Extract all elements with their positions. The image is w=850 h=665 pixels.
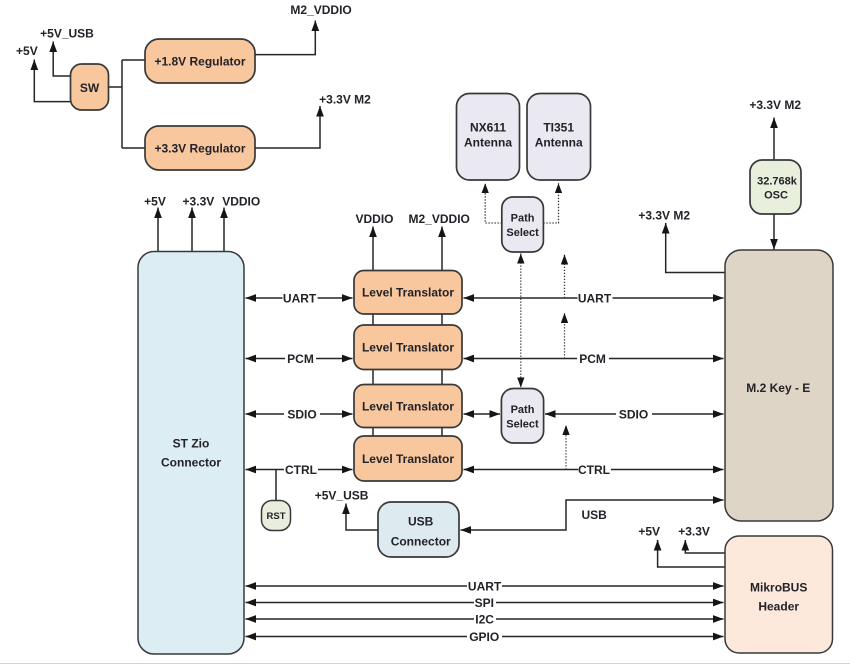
wire UART bus (ST Zio to MikroBUS) — [246, 585, 724, 587]
box Path Select (upper) — [502, 197, 544, 252]
wire VDDIO column arrow (above LT1) — [372, 227, 374, 271]
wire CTRL (LT4 to M.2) — [464, 469, 724, 471]
box NX611 Antenna — [457, 94, 520, 181]
wire GPIO bus (ST Zio to MikroBUS) — [246, 636, 724, 638]
wire ST Zio VDDIO arrow — [223, 208, 225, 252]
svg-text:Path: Path — [511, 213, 535, 225]
svg-text:M2_VDDIO: M2_VDDIO — [290, 3, 351, 17]
svg-text:Level Translator: Level Translator — [362, 341, 454, 355]
svg-text:+3.3V: +3.3V — [183, 195, 215, 209]
svg-text:CTRL: CTRL — [578, 463, 610, 477]
svg-text:+1.8V Regulator: +1.8V Regulator — [154, 55, 245, 69]
svg-text:Level Translator: Level Translator — [362, 286, 454, 300]
box SW — [71, 64, 109, 110]
svg-text:Select: Select — [506, 227, 539, 239]
svg-text:CTRL: CTRL — [285, 463, 317, 477]
svg-text:+5V: +5V — [144, 195, 166, 209]
wire +5V to MikroBUS — [658, 540, 725, 567]
box 32.768k OSC — [750, 160, 801, 214]
wire +3.3V regulator output to +3.3V M2 — [255, 106, 320, 148]
svg-text:+3.3V M2: +3.3V M2 — [319, 92, 371, 106]
box +3.3V Regulator — [145, 126, 255, 170]
svg-text:MikroBUS: MikroBUS — [750, 580, 807, 594]
svg-text:SDIO: SDIO — [287, 407, 316, 421]
wire LT3-LT4 right — [441, 428, 443, 437]
svg-text:Antenna: Antenna — [535, 136, 583, 150]
svg-text:PCM: PCM — [579, 352, 606, 366]
box Level Translator 4 — [354, 436, 462, 481]
dotted wire CTRL control arrow — [565, 425, 567, 470]
wire LT2-LT3 left — [372, 370, 374, 385]
svg-text:M.2 Key - E: M.2 Key - E — [746, 381, 810, 395]
svg-text:USB: USB — [408, 515, 434, 529]
svg-text:Connector: Connector — [161, 456, 221, 470]
wire OSC to +3.3V M2 — [773, 118, 775, 161]
svg-text:UART: UART — [468, 579, 502, 593]
wire +3.3V to MikroBUS — [685, 540, 725, 553]
box M.2 Key - E — [725, 250, 833, 521]
svg-text:Header: Header — [758, 599, 799, 613]
svg-text:SW: SW — [80, 81, 100, 95]
dotted wire PCM control arrow — [564, 313, 566, 359]
box Path Select (lower) — [501, 389, 543, 444]
wire LT3 to Path Select — [464, 413, 501, 415]
svg-text:+3.3V M2: +3.3V M2 — [638, 208, 690, 222]
wire OSC to M.2 — [773, 214, 775, 250]
wire branch to +3.3V regulator — [122, 147, 145, 149]
wire branch vertical — [121, 60, 123, 148]
wire UART (ST Zio to LT1) — [246, 297, 353, 299]
svg-text:Path: Path — [511, 404, 535, 416]
svg-text:+5V_USB: +5V_USB — [315, 488, 369, 502]
svg-text:Antenna: Antenna — [464, 136, 512, 150]
svg-text:SDIO: SDIO — [619, 407, 648, 421]
svg-text:Select: Select — [506, 419, 539, 431]
wire PCM (ST Zio to LT2) — [246, 358, 353, 360]
box USB Connector — [378, 502, 459, 557]
wire USB Connector to +5V_USB — [346, 504, 378, 531]
svg-text:OSC: OSC — [764, 190, 788, 202]
svg-text:Level Translator: Level Translator — [362, 452, 454, 466]
box +1.8V Regulator — [145, 39, 255, 83]
svg-text:+5V_USB: +5V_USB — [40, 27, 94, 41]
svg-text:M2_VDDIO: M2_VDDIO — [409, 212, 470, 226]
box Level Translator 2 — [354, 325, 462, 370]
wire +1.8V regulator output to M2_VDDIO — [255, 21, 315, 55]
wire USB (M.2 to USB Connector) — [461, 500, 724, 530]
wire CTRL to RST — [275, 470, 277, 501]
box TI351 Antenna — [527, 94, 591, 181]
box MikroBUS Header — [725, 536, 833, 653]
svg-text:+5V: +5V — [638, 525, 660, 539]
wire ST Zio +5V arrow — [157, 208, 159, 252]
svg-text:32.768k: 32.768k — [757, 176, 798, 188]
dotted wire Path Select to NX611 Antenna — [485, 183, 502, 223]
svg-text:USB: USB — [582, 508, 608, 522]
wire LT3-LT4 left — [372, 428, 374, 437]
wire +5V from SW — [34, 60, 70, 102]
box Level Translator 1 — [354, 271, 462, 315]
svg-text:VDDIO: VDDIO — [355, 212, 393, 226]
wire UART (LT1 to M.2) — [464, 297, 724, 299]
wire LT1-LT2 right — [441, 314, 443, 325]
wire M2_VDDIO column arrow (above LT1) — [441, 227, 443, 271]
svg-text:I2C: I2C — [475, 612, 494, 626]
wire SDIO (ST Zio to LT3) — [246, 413, 353, 415]
wire LT1-LT2 left — [372, 314, 374, 325]
svg-text:RST: RST — [267, 511, 286, 522]
wire +3.3V M2 to M.2 left — [666, 223, 725, 273]
wire SPI bus (ST Zio to MikroBUS) — [246, 602, 724, 604]
wire PCM (LT2 to M.2) — [464, 358, 724, 360]
svg-text:Level Translator: Level Translator — [362, 399, 454, 413]
svg-text:TI351: TI351 — [543, 121, 574, 135]
svg-text:+3.3V M2: +3.3V M2 — [749, 98, 801, 112]
svg-text:+5V: +5V — [16, 44, 38, 58]
svg-text:ST Zio: ST Zio — [173, 436, 210, 450]
box Level Translator 3 — [354, 385, 462, 428]
page border bottom — [0, 663, 850, 665]
wire +5V_USB from SW — [53, 42, 70, 77]
box RST — [262, 501, 291, 531]
dotted wire UART control arrow — [564, 255, 566, 299]
svg-text:UART: UART — [578, 291, 612, 305]
svg-text:+3.3V Regulator: +3.3V Regulator — [154, 142, 245, 156]
svg-text:NX611: NX611 — [470, 121, 506, 135]
wire SW to branch — [109, 86, 123, 88]
svg-text:PCM: PCM — [287, 352, 314, 366]
svg-text:Connector: Connector — [391, 535, 451, 549]
svg-text:GPIO: GPIO — [469, 630, 499, 644]
svg-text:VDDIO: VDDIO — [222, 195, 260, 209]
dotted wire Path Select (upper) to Path Select (lower) — [520, 254, 522, 388]
svg-text:SPI: SPI — [475, 596, 494, 610]
box ST Zio Connector — [138, 252, 244, 655]
wire LT2-LT3 right — [441, 370, 443, 385]
wire ST Zio +3.3V arrow — [191, 208, 193, 252]
dotted wire Path Select to TI351 Antenna — [543, 183, 558, 223]
svg-text:+3.3V: +3.3V — [678, 525, 710, 539]
svg-text:UART: UART — [283, 291, 317, 305]
wire I2C bus (ST Zio to MikroBUS) — [246, 618, 724, 620]
wire branch to +1.8V regulator — [122, 59, 145, 61]
wire SDIO (Path Select to M.2) — [545, 413, 724, 415]
wire CTRL (ST Zio to LT4) — [246, 469, 353, 471]
